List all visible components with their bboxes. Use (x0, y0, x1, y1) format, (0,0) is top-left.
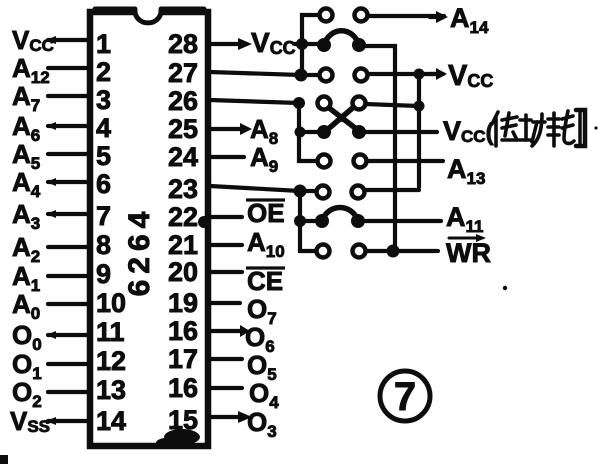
svg-text:22: 22 (168, 202, 198, 232)
svg-text:CE: CE (247, 266, 283, 296)
svg-text:OE: OE (247, 198, 285, 228)
svg-text:17: 17 (168, 344, 198, 374)
svg-text:19: 19 (168, 288, 198, 318)
svg-text:1: 1 (96, 29, 111, 59)
svg-text:12: 12 (96, 346, 126, 376)
svg-text:15: 15 (168, 405, 198, 435)
svg-text:VCC: VCC (448, 60, 493, 92)
svg-text:7: 7 (96, 201, 111, 231)
svg-text:5: 5 (96, 141, 111, 171)
svg-text:A3: A3 (12, 199, 40, 233)
svg-text:16: 16 (168, 373, 198, 403)
svg-text:VSS: VSS (10, 406, 50, 436)
svg-text:28: 28 (168, 29, 198, 59)
svg-text:9: 9 (96, 259, 111, 289)
svg-text:6: 6 (96, 169, 111, 199)
svg-text:21: 21 (168, 230, 198, 260)
svg-text:16: 16 (168, 316, 198, 346)
svg-text:WR: WR (446, 238, 491, 268)
svg-text:24: 24 (168, 142, 198, 172)
svg-text:14: 14 (96, 406, 126, 436)
svg-text:13: 13 (96, 375, 126, 405)
svg-text:O3: O3 (247, 407, 277, 441)
svg-text:VCC: VCC (12, 25, 54, 55)
svg-text:VCC: VCC (251, 27, 296, 58)
svg-text:3: 3 (96, 85, 111, 115)
svg-text:6264: 6264 (123, 206, 156, 297)
svg-text:4: 4 (96, 113, 111, 143)
svg-text:20: 20 (168, 257, 198, 287)
svg-text:11: 11 (96, 317, 125, 347)
svg-text:23: 23 (168, 174, 198, 204)
svg-text:26: 26 (168, 86, 198, 116)
svg-text:A14: A14 (450, 3, 489, 37)
svg-text:27: 27 (168, 58, 198, 88)
svg-text:A10: A10 (247, 227, 285, 261)
svg-text:A13: A13 (447, 154, 485, 188)
svg-text:7: 7 (394, 375, 416, 419)
svg-text:VCC(: VCC( (443, 116, 494, 146)
svg-text:25: 25 (168, 114, 198, 144)
svg-text:A11: A11 (446, 202, 483, 236)
svg-text:2: 2 (96, 57, 111, 87)
svg-text:10: 10 (96, 288, 126, 318)
svg-text:8: 8 (96, 230, 111, 260)
